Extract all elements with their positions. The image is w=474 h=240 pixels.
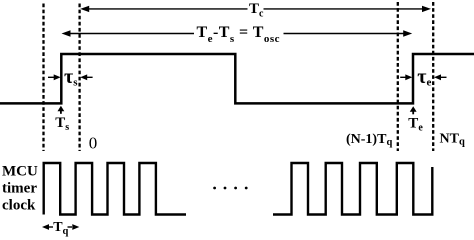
svg-text:timer: timer: [2, 180, 37, 196]
svg-text:MCU: MCU: [2, 163, 38, 179]
svg-text:(N-1)Tq: (N-1)Tq: [346, 132, 392, 148]
svg-text:clock: clock: [2, 197, 36, 213]
svg-text:0: 0: [89, 134, 98, 153]
